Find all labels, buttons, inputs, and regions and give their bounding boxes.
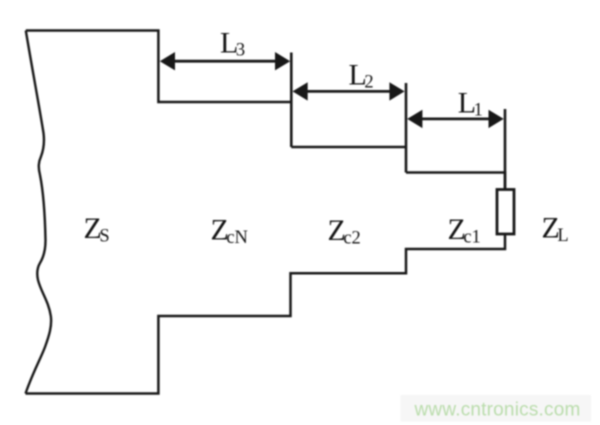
svg-text:www.cntronics.com: www.cntronics.com xyxy=(414,400,581,421)
svg-text:ZcN: ZcN xyxy=(211,214,248,249)
watermark background band xyxy=(401,395,592,422)
wire: wavy source break edge (left) xyxy=(26,31,52,394)
svg-text:ZS: ZS xyxy=(84,212,110,247)
wire: extension line at x=505 (load end) xyxy=(504,109,507,190)
svg-text:L3: L3 xyxy=(220,26,245,60)
dimension arrow L3 xyxy=(160,52,290,70)
dimension arrow L1 xyxy=(407,110,504,128)
svg-text:ZL: ZL xyxy=(542,212,569,247)
svg-text:Zc2: Zc2 xyxy=(328,214,361,249)
svg-text:L2: L2 xyxy=(349,59,374,93)
svg-text:L1: L1 xyxy=(458,87,483,121)
wire: extension line at x=291 (step ZcN/Zc2) xyxy=(290,53,293,148)
wire: extension line at x=406 (step Zc2/Zc1) xyxy=(405,83,408,173)
wire: stepped transformer body outline (Zs through Zc1 sections) xyxy=(26,31,506,394)
resistor ZL (load) xyxy=(497,190,514,235)
dimension arrow L2 xyxy=(293,82,405,100)
svg-text:Zc1: Zc1 xyxy=(448,213,481,248)
